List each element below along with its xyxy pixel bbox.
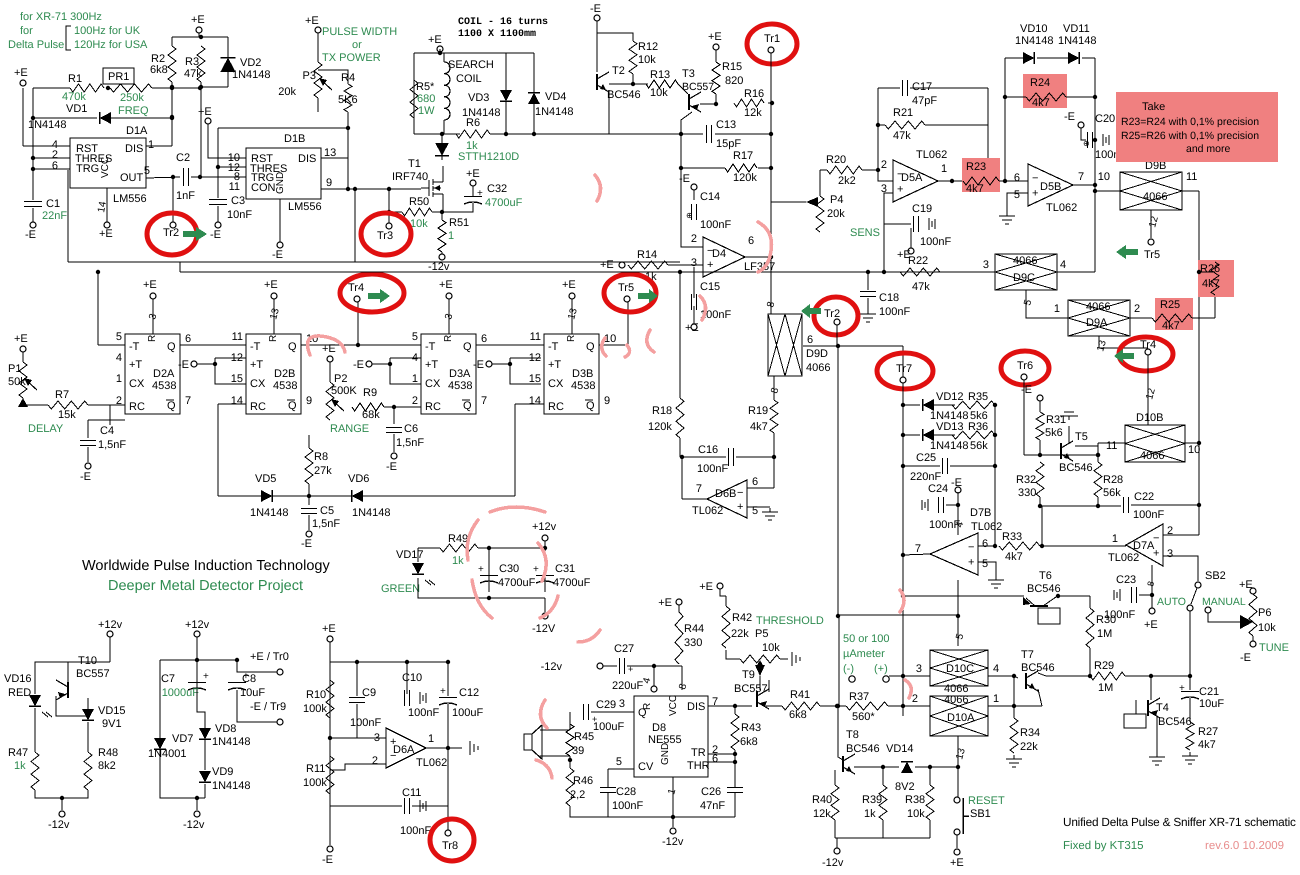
svg-text:C24: C24 [928, 483, 948, 495]
svg-text:4066: 4066 [1086, 301, 1110, 313]
svg-text:Tr8: Tr8 [442, 840, 458, 852]
svg-text:C22: C22 [1134, 491, 1154, 503]
svg-text:1M: 1M [1097, 628, 1112, 640]
svg-text:R1: R1 [68, 73, 82, 85]
svg-text:47k: 47k [893, 130, 911, 142]
svg-text:R50: R50 [409, 196, 429, 208]
svg-text:R43: R43 [741, 722, 761, 734]
svg-text:COIL - 16 turns: COIL - 16 turns [458, 17, 548, 28]
svg-text:Delta Pulse: Delta Pulse [8, 39, 64, 51]
svg-text:100nF: 100nF [408, 707, 439, 719]
svg-text:THR: THR [687, 760, 710, 772]
svg-text:8k2: 8k2 [98, 760, 116, 772]
svg-text:R29: R29 [1094, 660, 1114, 672]
svg-text:BC546: BC546 [607, 89, 641, 101]
svg-text:+E: +E [439, 279, 453, 291]
svg-text:Tr4: Tr4 [348, 282, 364, 294]
svg-text:-12v: -12v [822, 857, 844, 869]
svg-text:R38: R38 [905, 794, 925, 806]
svg-text:R25=R26 with 0,1% precision: R25=R26 with 0,1% precision [1121, 130, 1259, 142]
svg-text:TL062: TL062 [1046, 202, 1077, 214]
svg-text:CV: CV [638, 761, 654, 773]
svg-text:6: 6 [481, 333, 487, 345]
svg-text:27k: 27k [314, 465, 332, 477]
svg-text:C4: C4 [100, 425, 114, 437]
svg-text:1: 1 [1112, 533, 1118, 545]
svg-text:6: 6 [752, 476, 758, 488]
svg-text:4066: 4066 [806, 362, 830, 374]
svg-text:2: 2 [691, 233, 697, 245]
svg-text:+: + [1032, 188, 1038, 200]
svg-text:AUTO: AUTO [1157, 596, 1186, 608]
svg-text:P3: P3 [303, 70, 316, 82]
svg-text:5: 5 [412, 331, 418, 343]
svg-text:100nF: 100nF [697, 463, 728, 475]
svg-text:+E: +E [950, 857, 964, 869]
svg-text:R40: R40 [812, 794, 832, 806]
svg-text:SB2: SB2 [1205, 570, 1226, 582]
svg-text:R8: R8 [314, 451, 328, 463]
svg-text:7: 7 [915, 543, 921, 555]
svg-text:+E: +E [600, 259, 614, 271]
svg-text:680: 680 [417, 93, 435, 105]
svg-text:-T: -T [129, 341, 140, 353]
svg-text:4: 4 [1060, 259, 1066, 271]
svg-text:VCC: VCC [668, 695, 679, 716]
svg-text:SEARCH: SEARCH [448, 59, 494, 71]
svg-text:D7B: D7B [970, 507, 991, 519]
svg-text:TL062: TL062 [971, 521, 1002, 533]
svg-text:+E: +E [322, 343, 336, 355]
svg-text:Q: Q [288, 341, 297, 353]
svg-text:RC: RC [548, 401, 564, 413]
svg-text:10: 10 [1098, 171, 1110, 183]
svg-text:5: 5 [1014, 189, 1020, 201]
svg-text:100nF: 100nF [879, 306, 910, 318]
svg-text:47k: 47k [912, 281, 930, 293]
svg-text:+E: +E [14, 333, 28, 345]
svg-text:9: 9 [306, 395, 312, 407]
svg-text:68k: 68k [362, 409, 380, 421]
svg-text:RC: RC [250, 401, 266, 413]
svg-text:+E: +E [708, 31, 722, 43]
svg-text:VCC: VCC [100, 157, 111, 178]
svg-text:120Hz for USA: 120Hz for USA [74, 39, 148, 51]
svg-text:+T: +T [250, 359, 263, 371]
svg-text:47pF: 47pF [912, 95, 937, 107]
svg-text:C6: C6 [404, 423, 418, 435]
svg-text:D9C: D9C [1013, 272, 1035, 284]
svg-text:STTH1210D: STTH1210D [458, 151, 519, 163]
svg-text:6k8: 6k8 [789, 709, 807, 721]
svg-text:1N4148: 1N4148 [930, 440, 969, 452]
svg-text:56k: 56k [1103, 487, 1121, 499]
svg-text:R: R [147, 335, 158, 342]
svg-text:C5: C5 [320, 505, 334, 517]
svg-text:TX POWER: TX POWER [322, 52, 381, 64]
svg-text:100nF: 100nF [400, 825, 431, 837]
svg-text:-12v: -12v [183, 819, 205, 831]
svg-text:DIS: DIS [125, 143, 143, 155]
svg-text:100nF: 100nF [350, 717, 381, 729]
svg-text:R16: R16 [744, 88, 764, 100]
svg-text:C13: C13 [716, 119, 736, 131]
svg-text:560*: 560* [852, 711, 875, 723]
svg-text:9: 9 [326, 177, 332, 189]
svg-text:BC546: BC546 [1027, 583, 1061, 595]
svg-text:100nF: 100nF [700, 219, 731, 231]
svg-text:56k: 56k [970, 440, 988, 452]
svg-text:D9A: D9A [1086, 317, 1108, 329]
svg-text:11: 11 [1186, 171, 1197, 183]
svg-text:-E: -E [386, 461, 397, 473]
svg-text:R51: R51 [449, 217, 469, 229]
svg-text:5K6: 5K6 [338, 94, 358, 106]
svg-text:15: 15 [231, 373, 243, 385]
svg-text:R22: R22 [908, 255, 928, 267]
svg-text:Q: Q [167, 341, 176, 353]
svg-text:R19: R19 [748, 405, 768, 417]
svg-text:4: 4 [116, 352, 122, 364]
svg-text:+E: +E [562, 279, 576, 291]
svg-text:1: 1 [412, 373, 418, 385]
svg-text:R49: R49 [448, 533, 468, 545]
svg-text:R23=R24 with 0,1% precision: R23=R24 with 0,1% precision [1121, 116, 1259, 128]
svg-text:5: 5 [616, 756, 622, 768]
svg-text:C23: C23 [1116, 574, 1136, 586]
svg-text:-12v: -12v [541, 661, 563, 673]
svg-text:-E: -E [679, 173, 690, 185]
svg-text:2: 2 [372, 755, 378, 767]
svg-text:10k: 10k [410, 218, 428, 230]
svg-text:+: + [478, 564, 484, 575]
svg-text:RED: RED [8, 687, 31, 699]
svg-text:R25: R25 [1160, 299, 1180, 311]
svg-text:D1B: D1B [284, 133, 305, 145]
svg-text:R: R [566, 335, 577, 342]
svg-text:-E: -E [322, 854, 333, 866]
svg-text:Tr2: Tr2 [163, 227, 179, 239]
svg-text:1N4148: 1N4148 [212, 736, 251, 748]
svg-text:1N4148: 1N4148 [1058, 35, 1097, 47]
svg-text:2k2: 2k2 [838, 175, 856, 187]
svg-text:Unified Delta Pulse & Sniffer: Unified Delta Pulse & Sniffer XR-71 sche… [1063, 815, 1296, 829]
svg-text:500K: 500K [331, 385, 357, 397]
svg-text:4700uF: 4700uF [553, 577, 591, 589]
svg-text:VD6: VD6 [348, 473, 369, 485]
svg-text:D7A: D7A [1133, 540, 1155, 552]
svg-text:D2A: D2A [153, 368, 175, 380]
svg-text:or: or [352, 39, 362, 51]
svg-text:3: 3 [983, 259, 989, 271]
svg-text:1: 1 [993, 693, 999, 705]
svg-text:1k: 1k [864, 808, 876, 820]
svg-text:14: 14 [529, 395, 541, 407]
svg-text:T1: T1 [408, 158, 421, 170]
svg-text:GREEN: GREEN [381, 583, 420, 595]
svg-text:-E: -E [1240, 652, 1251, 664]
svg-text:+E: +E [322, 623, 336, 635]
svg-text:R35: R35 [968, 391, 988, 403]
svg-text:and more: and more [1186, 143, 1231, 155]
svg-text:T7: T7 [1021, 649, 1034, 661]
svg-text:R: R [268, 335, 279, 342]
svg-text:Q: Q [288, 400, 297, 412]
svg-text:TL062: TL062 [416, 757, 447, 769]
svg-text:R24: R24 [1030, 77, 1050, 89]
svg-text:T10: T10 [78, 655, 97, 667]
svg-text:7: 7 [696, 483, 702, 495]
svg-text:(+): (+) [874, 663, 888, 675]
svg-text:470k: 470k [62, 91, 86, 103]
svg-text:-12v: -12v [662, 836, 684, 848]
svg-text:Q: Q [463, 400, 472, 412]
svg-text:Tr1: Tr1 [764, 33, 780, 45]
svg-text:22nF: 22nF [42, 210, 67, 222]
svg-text:C17: C17 [912, 81, 932, 93]
svg-text:8V2: 8V2 [895, 781, 915, 793]
svg-text:+E: +E [466, 168, 480, 180]
svg-text:-T: -T [250, 341, 261, 353]
svg-text:1: 1 [148, 139, 154, 151]
svg-text:12k: 12k [813, 808, 831, 820]
svg-text:4k7: 4k7 [1005, 551, 1023, 563]
svg-text:+E: +E [99, 228, 113, 240]
svg-text:Fixed by KT315: Fixed by KT315 [1063, 840, 1144, 852]
svg-text:Q: Q [463, 341, 472, 353]
svg-text:+E: +E [14, 67, 28, 79]
svg-text:C3: C3 [231, 195, 245, 207]
svg-text:4538: 4538 [571, 380, 595, 392]
svg-text:-E: -E [272, 249, 283, 261]
svg-text:100uF: 100uF [452, 707, 483, 719]
svg-text:1N4148: 1N4148 [1015, 35, 1054, 47]
svg-text:R27: R27 [1198, 726, 1218, 738]
svg-text:22k: 22k [731, 628, 749, 640]
svg-text:+12v: +12v [532, 521, 557, 533]
svg-text:330: 330 [684, 637, 702, 649]
svg-text:TL062: TL062 [916, 149, 947, 161]
svg-text:-E: -E [590, 3, 601, 15]
svg-text:5: 5 [982, 558, 988, 570]
svg-text:VD14: VD14 [886, 743, 914, 755]
svg-text:+E: +E [658, 597, 672, 609]
svg-text:10uF: 10uF [240, 687, 265, 699]
svg-text:VD11: VD11 [1063, 23, 1090, 35]
svg-text:VD5: VD5 [255, 473, 276, 485]
svg-text:5: 5 [116, 331, 122, 343]
svg-text:CX: CX [548, 378, 564, 390]
svg-text:R44: R44 [684, 623, 704, 635]
svg-text:100nF: 100nF [612, 800, 643, 812]
svg-text:-E: -E [1064, 111, 1075, 123]
svg-text:4k7: 4k7 [1198, 739, 1216, 751]
svg-text:C25: C25 [916, 452, 936, 464]
svg-text:100Hz for UK: 100Hz for UK [74, 25, 141, 37]
svg-text:1N4001: 1N4001 [148, 748, 187, 760]
svg-text:1: 1 [1054, 303, 1060, 315]
svg-text:120k: 120k [648, 421, 672, 433]
svg-text:R47: R47 [8, 747, 28, 759]
svg-text:+E: +E [1144, 619, 1158, 631]
svg-text:100k: 100k [303, 703, 327, 715]
svg-text:R26: R26 [1200, 263, 1220, 275]
svg-text:R33: R33 [1002, 531, 1022, 543]
svg-text:1N4148: 1N4148 [535, 106, 574, 118]
svg-text:Q: Q [167, 400, 176, 412]
svg-text:15k: 15k [58, 409, 76, 421]
svg-text:VD16: VD16 [4, 673, 32, 685]
svg-text:Tr6: Tr6 [1017, 360, 1033, 372]
svg-text:12k: 12k [744, 107, 762, 119]
svg-text:R17: R17 [733, 150, 753, 162]
svg-text:+: + [243, 671, 249, 682]
svg-text:11: 11 [530, 331, 541, 343]
svg-text:10uF: 10uF [1199, 698, 1224, 710]
svg-text:10nF: 10nF [227, 209, 252, 221]
svg-text:VD17: VD17 [396, 549, 424, 561]
svg-text:BC546: BC546 [1158, 716, 1192, 728]
svg-text:1N4148: 1N4148 [250, 507, 289, 519]
svg-text:-E: -E [301, 538, 312, 550]
svg-text:TR: TR [691, 747, 706, 759]
svg-text:1,5nF: 1,5nF [396, 437, 424, 449]
svg-text:R6: R6 [466, 117, 480, 129]
svg-text:VD10: VD10 [1020, 23, 1048, 35]
svg-text:-12V: -12V [532, 623, 556, 635]
svg-text:R34: R34 [1020, 727, 1040, 739]
svg-text:VD9: VD9 [212, 766, 233, 778]
svg-text:R20: R20 [826, 154, 846, 166]
svg-text:VD13: VD13 [936, 421, 964, 433]
svg-text:C28: C28 [616, 786, 636, 798]
svg-text:C15: C15 [700, 281, 720, 293]
svg-text:TUNE: TUNE [1259, 642, 1289, 654]
svg-text:D10C: D10C [946, 663, 974, 675]
svg-text:+E: +E [198, 106, 212, 118]
svg-text:RESET: RESET [968, 795, 1005, 807]
svg-text:SENS: SENS [850, 227, 880, 239]
svg-text:10k: 10k [1258, 622, 1276, 634]
svg-text:3: 3 [1167, 548, 1173, 560]
svg-text:R7: R7 [55, 389, 69, 401]
svg-text:+E: +E [305, 15, 319, 27]
svg-text:R11: R11 [306, 763, 325, 775]
svg-text:3: 3 [916, 663, 922, 675]
svg-text:6: 6 [712, 753, 718, 765]
svg-text:P5: P5 [755, 628, 768, 640]
svg-text:Q: Q [586, 341, 595, 353]
svg-text:Tr5: Tr5 [1144, 249, 1160, 261]
svg-text:11: 11 [1106, 440, 1117, 452]
svg-text:BC546: BC546 [1059, 462, 1093, 474]
svg-text:TL062: TL062 [1108, 552, 1139, 564]
svg-text:µAmeter: µAmeter [843, 648, 885, 660]
svg-text:4538: 4538 [152, 380, 176, 392]
svg-text:4066: 4066 [1140, 450, 1164, 462]
svg-text:D8: D8 [652, 722, 666, 734]
svg-text:CX: CX [129, 378, 145, 390]
svg-text:4k7: 4k7 [966, 183, 984, 195]
svg-text:T9: T9 [742, 669, 755, 681]
svg-text:+: + [968, 557, 974, 569]
svg-text:VD2: VD2 [240, 57, 261, 69]
svg-text:+E: +E [143, 279, 157, 291]
svg-text:820: 820 [725, 75, 743, 87]
svg-text:13: 13 [324, 147, 336, 159]
svg-text:R: R [642, 703, 653, 710]
svg-text:100nF: 100nF [1133, 509, 1164, 521]
svg-text:6: 6 [982, 538, 988, 550]
svg-text:C1: C1 [46, 198, 60, 210]
svg-text:+T: +T [548, 359, 561, 371]
svg-text:DIS: DIS [687, 701, 705, 713]
svg-text:for: for [20, 25, 33, 37]
svg-text:Tr7: Tr7 [896, 363, 912, 375]
svg-text:DIS: DIS [298, 153, 316, 165]
svg-text:R21: R21 [893, 107, 913, 119]
svg-text:2: 2 [912, 693, 918, 705]
svg-text:+: + [707, 259, 713, 271]
svg-text:RC: RC [425, 401, 441, 413]
svg-text:+12v: +12v [98, 619, 123, 631]
svg-text:D2B: D2B [274, 368, 295, 380]
svg-text:R41: R41 [790, 689, 810, 701]
svg-text:BC557: BC557 [76, 668, 110, 680]
svg-text:+: + [440, 686, 446, 697]
svg-text:1100 X 1100mm: 1100 X 1100mm [458, 29, 536, 40]
svg-text:VD4: VD4 [545, 91, 566, 103]
svg-text:VD7: VD7 [172, 733, 193, 745]
svg-text:R13: R13 [650, 69, 670, 81]
svg-text:250k: 250k [120, 92, 144, 104]
svg-text:GND: GND [275, 172, 286, 194]
svg-text:C31: C31 [555, 563, 575, 575]
svg-text:IRF740: IRF740 [392, 171, 428, 183]
svg-text:R42: R42 [732, 612, 752, 624]
svg-text:3: 3 [374, 732, 380, 744]
svg-text:D5B: D5B [1040, 181, 1061, 193]
svg-text:Q: Q [586, 400, 595, 412]
svg-text:R32: R32 [1016, 474, 1036, 486]
svg-text:9V1: 9V1 [102, 718, 122, 730]
svg-text:R23: R23 [966, 161, 986, 173]
svg-text:-E: -E [25, 229, 36, 241]
svg-text:4066: 4066 [1143, 191, 1167, 203]
svg-text:1nF: 1nF [176, 190, 195, 202]
svg-text:C21: C21 [1199, 686, 1219, 698]
svg-text:220uF: 220uF [612, 680, 643, 692]
svg-text:1000uF: 1000uF [162, 687, 200, 699]
svg-text:THRESHOLD: THRESHOLD [756, 615, 824, 627]
svg-text:R14: R14 [637, 249, 657, 261]
svg-text:330: 330 [1018, 487, 1036, 499]
svg-text:D6B: D6B [715, 488, 736, 500]
svg-text:−: − [1032, 172, 1038, 184]
svg-text:Take: Take [1142, 101, 1165, 113]
svg-text:C27: C27 [614, 643, 634, 655]
svg-text:R3: R3 [185, 56, 199, 68]
svg-text:R28: R28 [1103, 474, 1123, 486]
svg-text:Worldwide Pulse Induction Tech: Worldwide Pulse Induction Technology [82, 558, 330, 574]
svg-text:BC557: BC557 [682, 81, 714, 93]
svg-text:+E: +E [699, 581, 713, 593]
svg-text:C2: C2 [176, 152, 190, 164]
svg-text:20k: 20k [827, 208, 845, 220]
svg-text:GND: GND [660, 743, 671, 765]
svg-text:OUT: OUT [120, 172, 144, 184]
svg-text:R12: R12 [638, 41, 658, 53]
